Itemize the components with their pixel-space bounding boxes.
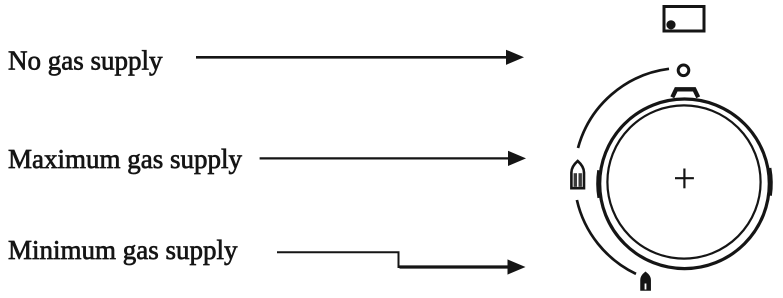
knob inner circle xyxy=(607,105,760,258)
knob right side grip tab xyxy=(769,168,770,196)
indicator dot inside box xyxy=(666,20,675,29)
swept arc: upper segment (from off marker to large flame) xyxy=(578,69,669,148)
knob outer circle xyxy=(600,99,770,269)
arrow: minimum gas supply stepped pointer xyxy=(277,252,526,274)
svg-text:No gas supply: No gas supply xyxy=(8,46,163,76)
off position marker: small circle xyxy=(678,65,689,76)
arrow: maximum gas supply pointer xyxy=(260,151,526,166)
indicator box: ignition position xyxy=(664,7,704,32)
small flame symbol (minimum) xyxy=(641,273,650,291)
knob left side grip tab xyxy=(598,170,599,197)
svg-text:Maximum gas supply: Maximum gas supply xyxy=(8,144,242,174)
svg-text:Minimum gas supply: Minimum gas supply xyxy=(8,235,238,265)
knob top tab (pointer notch) xyxy=(672,89,698,97)
swept arc: lower segment (from large flame to small flame) xyxy=(577,200,636,274)
large flame symbol (maximum) xyxy=(571,161,584,188)
plus mark at knob center xyxy=(675,169,694,189)
arrow: no gas supply pointer xyxy=(196,50,524,65)
